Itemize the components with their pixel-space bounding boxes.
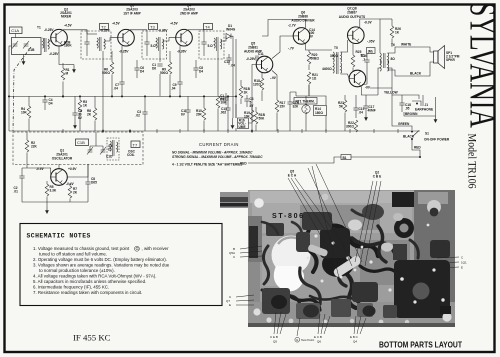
resistor R14 xyxy=(314,106,327,116)
capacitor C5 xyxy=(72,113,77,115)
wire: Q3 collector riser xyxy=(130,29,147,31)
transistor Q8 audio output xyxy=(349,70,366,87)
wire: Q5 emitter xyxy=(272,71,277,91)
wire: T6 primary center tap xyxy=(378,19,380,95)
svg-text:(M): (M) xyxy=(368,49,373,53)
svg-text:OSCILLATOR: OSCILLATOR xyxy=(52,157,73,161)
svg-text:10K: 10K xyxy=(21,111,28,115)
svg-text:ST-806: ST-806 xyxy=(272,213,305,220)
resistor R27 xyxy=(216,96,220,108)
svg-text:.02: .02 xyxy=(136,114,141,118)
junction dots xyxy=(8,95,253,132)
svg-text:T5: T5 xyxy=(334,46,338,50)
wire: T2 out to Q3 xyxy=(104,38,118,41)
transistor Q5 audio amp xyxy=(256,56,273,73)
svg-text:C E B: C E B xyxy=(270,335,278,339)
ground tuner xyxy=(22,58,26,65)
svg-text:-0.25V: -0.25V xyxy=(44,28,54,32)
svg-text:SPKR: SPKR xyxy=(446,58,456,62)
mounting hole top-left xyxy=(254,198,264,208)
svg-text:-0.35V: -0.35V xyxy=(100,29,110,33)
svg-text:.1: .1 xyxy=(363,58,366,62)
svg-text:E B C: E B C xyxy=(350,335,359,339)
svg-text:D65: D65 xyxy=(91,181,97,185)
svg-text:1K: 1K xyxy=(83,104,88,108)
svg-text:-0.25V: -0.25V xyxy=(49,52,59,56)
wire: osc emitter bottom bus xyxy=(22,196,88,207)
wire: bias network ties xyxy=(290,85,326,132)
svg-text:2K: 2K xyxy=(73,191,78,195)
switch S1 xyxy=(412,131,419,138)
capacitor C14d xyxy=(223,98,228,100)
svg-text:BLACK: BLACK xyxy=(410,72,422,76)
svg-text:1K: 1K xyxy=(244,91,249,95)
label B Q5A C (left of photo) xyxy=(226,247,467,344)
svg-text:2. Operating voltage must be 6: 2. Operating voltage must be 6 volts DC.… xyxy=(33,257,167,262)
photo bottom shadow xyxy=(248,323,455,327)
wire: mixer emitter drop xyxy=(59,46,66,65)
svg-text:6. Intermediate frequency (IF): 6. Intermediate frequency (IF), 455 KC. xyxy=(33,284,109,289)
svg-text:-0.26V: -0.26V xyxy=(177,50,187,54)
wire: riser T3 top xyxy=(203,30,205,34)
svg-text:1. Voltage measured to chassis: 1. Voltage measured to chassis ground, t… xyxy=(33,246,130,251)
boxed label T7 xyxy=(131,141,140,148)
svg-text:20K: 20K xyxy=(196,113,203,117)
wire: Q1 base feed xyxy=(22,164,51,196)
ground oscillator xyxy=(45,207,49,214)
mounting hole small top xyxy=(322,194,329,201)
svg-text:120Ω: 120Ω xyxy=(253,83,261,87)
wire: secondary to earphone jack YELLOW xyxy=(370,68,412,95)
dark trace squiggles center xyxy=(305,214,317,272)
solder pads bottom xyxy=(266,317,271,322)
wire: T2 top tie xyxy=(87,33,97,35)
dark part upper-left xyxy=(266,223,284,236)
capacitor C7 xyxy=(119,82,124,84)
svg-text:D4: D4 xyxy=(49,102,53,106)
wire: osc collector up xyxy=(59,164,88,177)
svg-text:E: E xyxy=(229,303,231,307)
wire: battery to switch xyxy=(351,156,420,158)
svg-text:4 - 1 1/2 VOLT PENLITE SIZE "A: 4 - 1 1/2 VOLT PENLITE SIZE "AA" BATTERI… xyxy=(172,163,242,167)
variable capacitor C1A section xyxy=(12,41,18,49)
wire: volume to Q5 base xyxy=(252,65,256,105)
svg-text:E C A: E C A xyxy=(288,174,297,178)
volume control R16 xyxy=(238,118,249,129)
wire: T2 secondary drop xyxy=(102,51,104,131)
photo right dark zone xyxy=(414,190,455,327)
svg-text:5. All capacitors in microfara: 5. All capacitors in microfarads unless … xyxy=(33,279,146,284)
IF transformer T3 (dashed) xyxy=(142,31,167,59)
wire: Q4 collector riser xyxy=(188,29,204,31)
svg-text:Test Point: Test Point xyxy=(301,338,314,342)
svg-text:J1: J1 xyxy=(425,103,429,107)
solder dots scattered xyxy=(307,224,445,304)
svg-text:E C B: E C B xyxy=(314,335,322,339)
wire: BROWN lead with ground xyxy=(404,97,436,116)
wire: volume wiper xyxy=(236,104,252,131)
capacitor C13 xyxy=(225,108,230,110)
svg-text:.01: .01 xyxy=(14,190,19,194)
capacitor C2 xyxy=(19,176,24,178)
svg-text:IN64G: IN64G xyxy=(226,28,236,32)
resistor R4 xyxy=(27,106,31,118)
resistor R2 xyxy=(25,140,29,152)
svg-text:5K: 5K xyxy=(339,105,344,109)
capacitor C3a xyxy=(244,99,249,101)
oscillator coil box T7 (dashed) xyxy=(13,132,143,165)
resistor R3 xyxy=(78,100,82,112)
resistor R8 xyxy=(93,108,97,120)
svg-text:8Ω: 8Ω xyxy=(391,57,396,61)
bottom row components xyxy=(262,288,290,314)
svg-text:RT1 THERM.: RT1 THERM. xyxy=(296,100,315,104)
variable capacitor trimmer xyxy=(23,41,29,49)
svg-text:to normal production tolerance: to normal production tolerance (±10%). xyxy=(39,268,115,273)
svg-text:Model TR106: Model TR106 xyxy=(466,134,478,189)
svg-text:-6V: -6V xyxy=(365,86,371,90)
svg-text:CURRENT DRAIN: CURRENT DRAIN xyxy=(199,142,239,147)
svg-text:D6: D6 xyxy=(152,67,156,71)
svg-text:C1B: C1B xyxy=(77,140,85,145)
speaker SP1 xyxy=(434,51,439,63)
svg-text:T6: T6 xyxy=(391,43,395,47)
svg-text:D4: D4 xyxy=(140,70,144,74)
hex nut top-right xyxy=(427,200,441,214)
svg-text:NO SIGNAL - MINIMUM VOLUME - A: NO SIGNAL - MINIMUM VOLUME - APPROX. 10M… xyxy=(172,151,253,155)
wire: Q6 collector to T5 xyxy=(262,20,332,51)
svg-text:4. All voltage readings taken: 4. All voltage readings taken with RCA V… xyxy=(33,273,156,278)
wire: RED battery lead xyxy=(412,139,420,157)
wire: RED lead to supply rail xyxy=(248,157,341,163)
svg-text:.002: .002 xyxy=(220,111,226,115)
capacitor C4 xyxy=(42,100,47,102)
tuning gang enclosure C1 xyxy=(12,38,42,55)
wire: bottom supply rail y131 xyxy=(9,130,420,132)
mid gray patches xyxy=(262,236,302,286)
svg-text:T7: T7 xyxy=(133,142,138,147)
capacitor C17 xyxy=(363,106,368,108)
svg-text:Q6: Q6 xyxy=(317,340,321,344)
svg-text:10K: 10K xyxy=(244,115,251,119)
earphone jack J1 xyxy=(412,95,423,106)
svg-text:-1.7V: -1.7V xyxy=(288,24,296,28)
resistor R20 xyxy=(307,52,311,64)
svg-text:Q5: Q5 xyxy=(273,340,277,344)
tuning capacitor white disc xyxy=(272,236,311,275)
svg-text:1Ω: 1Ω xyxy=(312,77,317,81)
photo base plate xyxy=(248,190,455,327)
svg-text:1K: 1K xyxy=(395,31,400,35)
svg-text:YELLOW: YELLOW xyxy=(384,91,398,95)
boxed label C1A xyxy=(10,27,23,34)
transistor Q4 2nd IF xyxy=(176,29,193,46)
svg-text:-6.0V: -6.0V xyxy=(364,21,372,25)
wire: rail top mid xyxy=(146,30,148,34)
svg-text:15#: 15# xyxy=(280,105,286,109)
wire: GREEN return to switch xyxy=(392,95,412,130)
resistor R25 xyxy=(351,55,355,67)
capacitor C10 xyxy=(142,112,147,114)
diagonal light capacitor xyxy=(332,254,362,278)
resistor R12 xyxy=(254,112,258,124)
IF transformer T2 (dashed) xyxy=(81,31,111,59)
wire: rail top y20 left xyxy=(86,30,88,34)
svg-text:STRONG SIGNAL - MAXIMUM VOLUME: STRONG SIGNAL - MAXIMUM VOLUME - APPROX.… xyxy=(172,155,263,159)
wire: T4 secondary drop xyxy=(217,51,219,90)
svg-text:3.3K: 3.3K xyxy=(50,189,57,193)
svg-text:T3: T3 xyxy=(150,24,155,29)
svg-text:C1B: C1B xyxy=(28,48,35,52)
transistor Q2 mixer xyxy=(51,29,68,46)
svg-text:2ND IF AMP: 2ND IF AMP xyxy=(180,12,199,16)
svg-text:AUDIO OUTPUTS: AUDIO OUTPUTS xyxy=(339,15,365,19)
svg-text:5.Ω: 5.Ω xyxy=(208,44,214,48)
svg-text:-.05V: -.05V xyxy=(367,40,375,44)
oscillator coil T7 xyxy=(107,138,119,160)
svg-text:UME: UME xyxy=(239,125,246,129)
ground volume xyxy=(231,122,235,129)
pointer lines left of photo xyxy=(240,246,262,249)
svg-text:-4.5V: -4.5V xyxy=(170,22,178,26)
svg-text:E: E xyxy=(461,266,463,270)
svg-text:D4: D4 xyxy=(199,70,203,74)
ferrite rod tab xyxy=(220,192,249,208)
svg-text:IF 455 KC: IF 455 KC xyxy=(73,333,111,343)
pointer lines below photo xyxy=(274,312,276,334)
svg-text:1Q1: 1Q1 xyxy=(461,261,467,265)
resistor R26 xyxy=(390,26,394,38)
capacitor C12 xyxy=(226,58,231,60)
wire: left vertical from tuner xyxy=(9,46,12,131)
svg-text:-4.5V: -4.5V xyxy=(112,22,120,26)
svg-text:50BΩ: 50BΩ xyxy=(311,57,320,61)
svg-text:GREEN: GREEN xyxy=(398,122,410,126)
wire: speaker leads WHITE/BLACK xyxy=(388,47,434,76)
svg-text:SCHEMATIC NOTES: SCHEMATIC NOTES xyxy=(27,233,91,240)
extra dark squiggles xyxy=(263,246,268,284)
capacitor C11 xyxy=(256,55,258,60)
svg-text:-0.25V: -0.25V xyxy=(119,50,129,54)
svg-text:C12: C12 xyxy=(224,60,230,64)
wire: T4 to D1 and down to volume xyxy=(221,36,237,118)
pointer lines right of photo xyxy=(437,257,459,258)
wire: tuner bottom drop xyxy=(23,55,25,59)
wire: osc box top tie xyxy=(90,132,103,146)
resistor R19 xyxy=(250,110,254,122)
resistor R13 xyxy=(239,86,243,98)
svg-text:-4.5V: -4.5V xyxy=(64,23,72,27)
ground below mixer emitter xyxy=(72,66,76,73)
transistor Q1 oscillator xyxy=(51,169,68,186)
svg-text:10K: 10K xyxy=(221,101,228,105)
variable capacitor C1C xyxy=(87,147,93,155)
resistor R9 xyxy=(168,62,172,74)
capacitor C16 xyxy=(364,60,369,62)
svg-text:2K: 2K xyxy=(87,113,92,117)
wire: T3 secondary drop xyxy=(159,51,161,96)
svg-text:BLACK: BLACK xyxy=(403,135,415,139)
boxed label (M) xyxy=(367,48,376,54)
svg-text:.04: .04 xyxy=(114,87,119,91)
transistor Q7 audio output xyxy=(348,27,365,44)
capacitor C18 xyxy=(399,103,404,105)
wire: C5 ground xyxy=(73,122,77,129)
svg-text:5.Ω: 5.Ω xyxy=(151,44,157,48)
svg-text:COIL: COIL xyxy=(127,153,135,157)
wire: rail to R26 xyxy=(380,18,392,20)
svg-text:-0.29V: -0.29V xyxy=(246,57,256,61)
svg-text:EARPHONE: EARPHONE xyxy=(415,108,433,112)
wire: outputs collectors to T6 xyxy=(360,19,380,95)
capacitor C1 on T3 drop xyxy=(157,64,162,66)
svg-text:Q4: Q4 xyxy=(353,340,357,344)
svg-text:RED: RED xyxy=(240,162,247,166)
svg-text:180Ω: 180Ω xyxy=(315,111,323,115)
svg-text:7. Resistance readings taken w: 7. Resistance readings taken with compon… xyxy=(33,290,142,295)
svg-text:, with receiver: , with receiver xyxy=(142,246,170,251)
svg-text:AUDIO DRIVER: AUDIO DRIVER xyxy=(291,19,315,23)
svg-text:WHITE: WHITE xyxy=(401,43,411,47)
svg-text:-0.6V: -0.6V xyxy=(36,167,44,171)
svg-text:.04: .04 xyxy=(359,111,364,115)
svg-text:22K: 22K xyxy=(31,145,38,149)
svg-text:32K: 32K xyxy=(293,105,300,109)
junction ticks on supply rail xyxy=(63,129,398,133)
svg-text:1ST IF AMP: 1ST IF AMP xyxy=(123,12,141,16)
capacitor C6 xyxy=(134,68,139,70)
svg-text:300Ω: 300Ω xyxy=(346,125,354,129)
IF transformer T4 (dashed) xyxy=(199,31,224,59)
thermistor RT1 xyxy=(294,98,317,105)
svg-text:SYLVANIA: SYLVANIA xyxy=(462,2,500,128)
svg-text:MIXER: MIXER xyxy=(61,15,72,19)
svg-text:.05: .05 xyxy=(405,107,410,111)
svg-text:B1: B1 xyxy=(343,156,347,160)
resistor R10 xyxy=(202,108,206,120)
electrolytic bright caps xyxy=(348,220,362,231)
wire: C1A label leader xyxy=(15,34,17,38)
wire: T5 secondary to output bases xyxy=(341,40,350,79)
svg-text:3. Voltages shown are average: 3. Voltages shown are average readings. … xyxy=(33,263,170,268)
wire: AGC rail y96.4 xyxy=(9,95,236,97)
boxed label C1B xyxy=(76,139,89,146)
mounting hole bottom-left xyxy=(253,308,260,315)
svg-text:C B E: C B E xyxy=(373,175,382,179)
svg-text:ON-OFF POWER: ON-OFF POWER xyxy=(424,138,450,142)
svg-text:Ω: Ω xyxy=(108,148,111,152)
capacitor C9 xyxy=(177,82,182,84)
resistor R23 xyxy=(343,100,347,112)
transistor Q3 1st IF xyxy=(118,29,135,46)
wire: T3 out to Q4 xyxy=(163,38,176,41)
svg-text:-0.36V: -0.36V xyxy=(158,29,168,33)
svg-text:M: M xyxy=(66,72,69,76)
svg-text:T4: T4 xyxy=(205,24,210,29)
svg-text:500Ω: 500Ω xyxy=(160,71,168,75)
svg-text:BROWN: BROWN xyxy=(405,112,418,116)
svg-text:BOTTOM PARTS LAYOUT: BOTTOM PARTS LAYOUT xyxy=(379,340,462,350)
svg-text:tuned to off station and full: tuned to off station and full volume. xyxy=(39,252,107,257)
capacitor C9b xyxy=(85,182,90,184)
capacitor C8 xyxy=(193,68,198,70)
svg-text:+0.9V: +0.9V xyxy=(68,167,77,171)
svg-text:.04: .04 xyxy=(171,87,176,91)
capacitor C12 xyxy=(287,102,292,104)
svg-text:C1A: C1A xyxy=(11,28,19,33)
capacitor C10b xyxy=(185,110,190,112)
notes box xyxy=(20,224,222,306)
capacitor C15 xyxy=(353,108,358,110)
photo top pale strip xyxy=(250,191,450,203)
wire: R1 drop + junction xyxy=(62,63,64,96)
svg-text:4400Ω: 4400Ω xyxy=(322,67,332,71)
IF can ring right xyxy=(394,218,414,238)
wire: gang link dash line xyxy=(13,47,31,131)
resistor R15 xyxy=(275,100,279,112)
resistor R22 xyxy=(354,120,358,132)
photo bottom strip xyxy=(248,302,455,327)
wire: T1 to mixer base xyxy=(48,40,51,42)
svg-text:T1: T1 xyxy=(37,26,41,30)
battery B1 xyxy=(341,155,351,160)
variable capacitor C1D xyxy=(100,147,106,155)
photo left dark column xyxy=(248,216,262,262)
svg-text:S1: S1 xyxy=(425,132,429,136)
resistor R6 xyxy=(110,62,114,74)
callout lines over photo xyxy=(236,164,459,336)
svg-text:RED: RED xyxy=(414,146,421,150)
resistor R18 xyxy=(260,78,264,90)
resistor R1 xyxy=(61,68,65,80)
svg-text:-.9V: -.9V xyxy=(270,76,277,80)
svg-text:50K: 50K xyxy=(259,117,266,121)
svg-text:40MF: 40MF xyxy=(368,109,376,113)
svg-text:180K: 180K xyxy=(64,44,72,48)
svg-text:-.7V: -.7V xyxy=(288,47,295,51)
mounting hole bottom-right xyxy=(442,312,451,321)
transistor Q6 audio driver xyxy=(293,28,310,45)
dark component masses xyxy=(322,251,354,277)
resistor R21 xyxy=(307,72,311,84)
wire: Q5 collector to Q6 base xyxy=(272,36,293,59)
resistor R5 xyxy=(45,184,49,196)
resistor R7 xyxy=(68,186,72,198)
wire: mixer collector riser to rail xyxy=(63,30,87,34)
right black cluster xyxy=(394,260,450,318)
svg-text:C11: C11 xyxy=(258,52,264,56)
